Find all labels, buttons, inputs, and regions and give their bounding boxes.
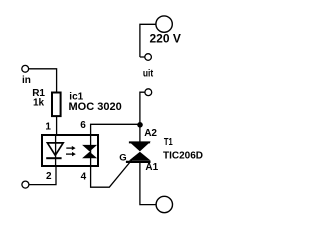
node A2 junction dot (137, 122, 143, 128)
svg-text:4: 4 (81, 172, 87, 183)
triac T1 upper triangle (129, 142, 151, 152)
wire stub to uit top terminal (140, 56, 145, 58)
wire in to R1 (29, 69, 57, 92)
wire 220V vertical (140, 24, 156, 57)
light arrow lower (66, 153, 73, 155)
svg-text:G: G (119, 153, 126, 164)
LED triangle (47, 143, 63, 155)
terminal in (22, 65, 29, 72)
terminal pin2 (22, 181, 29, 188)
svg-text:1: 1 (45, 122, 51, 133)
light arrow upper (66, 147, 72, 149)
wire pin2 to terminal (29, 166, 56, 185)
svg-text:1k: 1k (33, 98, 45, 109)
svg-text:2: 2 (46, 171, 52, 182)
svg-text:6: 6 (80, 120, 86, 131)
phototriac upper triangle (82, 145, 97, 152)
svg-text:220 V: 220 V (150, 31, 181, 45)
svg-text:A1: A1 (145, 162, 158, 173)
optocoupler ic1 body (42, 135, 98, 166)
triac bottom bar (126, 161, 151, 163)
phototriac vertical wire pins 6-4 (90, 135, 92, 166)
svg-text:MOC 3020: MOC 3020 (69, 101, 122, 113)
resistor R1 (52, 93, 61, 117)
wire pin4 to gate (91, 158, 134, 188)
svg-text:TIC206D: TIC206D (163, 151, 203, 162)
wire uit bottom to node A2 (140, 92, 145, 141)
svg-text:T1: T1 (164, 137, 173, 148)
triac top bar (129, 141, 150, 143)
triac T1 lower triangle (129, 152, 151, 161)
LED cathode bar (46, 157, 61, 159)
wire pin6 to node A2 (91, 124, 140, 135)
terminal uit bottom (145, 89, 152, 96)
terminal uit top (145, 54, 152, 61)
terminal 220V big circle (156, 16, 172, 32)
terminal bottom big circle (156, 196, 172, 212)
svg-text:in: in (22, 75, 31, 86)
svg-text:A2: A2 (144, 128, 157, 139)
wire A1 to bottom terminal (140, 161, 156, 205)
wire R1 to ic1 pin1 (56, 117, 58, 135)
phototriac lower triangle (82, 152, 97, 159)
svg-text:uit: uit (143, 68, 154, 79)
LED vertical wire pins 1-2 (55, 135, 57, 166)
